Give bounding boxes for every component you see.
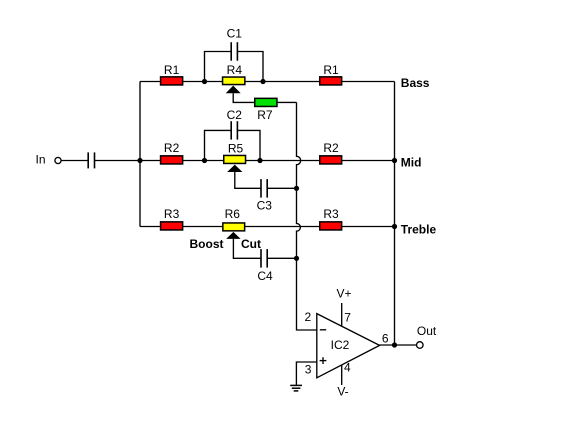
wire C2 right leg: [237, 130, 260, 160]
node C4 wiper bus junction: [294, 256, 299, 261]
resistor R7: [255, 98, 277, 106]
node input bus junction: [137, 158, 142, 163]
wire C2 left leg: [205, 130, 232, 160]
op-amp IC2: [317, 314, 380, 378]
resistor R2 left: [161, 156, 183, 164]
svg-text:R2: R2: [323, 141, 339, 155]
label Cut: [241, 237, 261, 251]
label Out: [417, 324, 437, 338]
label Treble: [401, 222, 437, 236]
node mid right of R5: [257, 158, 262, 163]
resistor R3 right: [320, 222, 342, 230]
wire R7 to wiper bus: [278, 101, 297, 103]
svg-text:Boost: Boost: [190, 237, 224, 251]
label R2 right: [323, 141, 339, 155]
svg-text:C2: C2: [227, 108, 243, 122]
svg-text:Bass: Bass: [401, 76, 430, 90]
label pin 6: [382, 332, 389, 346]
svg-text:Out: Out: [417, 324, 437, 338]
label R7: [257, 108, 273, 122]
label Bass: [401, 76, 430, 90]
svg-text:Mid: Mid: [401, 156, 422, 170]
label R4: [227, 63, 243, 77]
wire In terminal to input capacitor: [61, 160, 88, 162]
ground: [290, 385, 302, 391]
wire C4 to wiper bus: [267, 257, 296, 259]
label R5: [228, 141, 244, 155]
label pin 4: [344, 361, 351, 375]
svg-text:R1: R1: [323, 63, 339, 77]
svg-text:V-: V-: [337, 384, 348, 398]
svg-text:4: 4: [344, 361, 351, 375]
label R3 right: [323, 207, 339, 221]
op-amp plus input symbol: [320, 357, 327, 364]
label V+: [336, 287, 351, 301]
node mid left of R5: [202, 158, 207, 163]
wire wiper bus with crossover hops: [297, 102, 317, 330]
svg-text:Cut: Cut: [241, 237, 261, 251]
wire op-amp output: [380, 344, 417, 346]
wire pin 3 to ground: [296, 362, 316, 385]
label pin 2: [305, 310, 312, 324]
potentiometer R6: [223, 223, 245, 239]
svg-text:C4: C4: [257, 269, 273, 283]
svg-text:C3: C3: [257, 199, 273, 213]
node Out terminal: [417, 342, 424, 349]
wire R5 wiper to C3: [235, 172, 261, 188]
svg-text:7: 7: [344, 311, 351, 325]
node bass right of R4: [260, 79, 265, 84]
potentiometer R5: [224, 155, 246, 172]
svg-text:R2: R2: [164, 141, 180, 155]
svg-text:3: 3: [305, 363, 312, 377]
wire R4 wiper to R7: [233, 93, 254, 102]
svg-text:IC2: IC2: [331, 338, 350, 352]
label C2: [227, 108, 243, 122]
svg-text:Treble: Treble: [401, 222, 437, 236]
label Boost: [190, 237, 224, 251]
label C1: [227, 27, 243, 41]
svg-text:In: In: [35, 153, 45, 167]
node bass left of R4: [202, 79, 207, 84]
label pin 3: [305, 363, 312, 377]
capacitor C1: [231, 42, 237, 61]
label V-: [337, 384, 348, 398]
wire C1 right leg: [237, 52, 263, 82]
node output feedback junction: [392, 342, 397, 347]
node right bus mid junction: [392, 158, 397, 163]
svg-text:R3: R3: [164, 207, 180, 221]
resistor R1 left: [161, 77, 183, 85]
label R6: [225, 207, 241, 221]
wire bass row: [140, 81, 395, 83]
wire pin 4 V-: [341, 365, 343, 385]
resistor R1 right: [320, 77, 342, 85]
label pin 7: [344, 311, 351, 325]
label C4: [257, 269, 273, 283]
wire right bus vertical: [394, 82, 396, 346]
label R3 left: [164, 207, 180, 221]
label R1 right: [323, 63, 339, 77]
wire R6 wiper to C4: [233, 239, 261, 258]
svg-text:R6: R6: [225, 207, 241, 221]
label R2 left: [164, 141, 180, 155]
label In: [35, 153, 45, 167]
node In terminal: [55, 157, 61, 163]
svg-text:C1: C1: [227, 27, 243, 41]
capacitor input coupling: [88, 152, 94, 168]
wire input capacitor to input bus: [95, 160, 141, 162]
node C3 wiper bus junction: [294, 186, 299, 191]
op-amp minus input symbol: [320, 329, 326, 331]
potentiometer R4: [223, 77, 245, 93]
wire mid row: [140, 160, 395, 162]
capacitor C4: [261, 249, 267, 268]
capacitor C3: [261, 179, 267, 198]
capacitor C2: [231, 121, 237, 139]
wire C3 to wiper bus: [267, 187, 296, 189]
label R1 left: [164, 63, 180, 77]
svg-text:2: 2: [305, 310, 312, 324]
node right bus treble junction: [392, 224, 397, 229]
label C3: [257, 199, 273, 213]
svg-text:R7: R7: [257, 108, 273, 122]
svg-text:R1: R1: [164, 63, 180, 77]
wire treble row: [140, 226, 395, 228]
resistor R3 left: [161, 222, 183, 230]
wire pin 7 V+: [341, 303, 343, 326]
resistor R2 right: [320, 156, 342, 164]
wire C1 left leg: [205, 52, 232, 82]
svg-text:R5: R5: [228, 141, 244, 155]
svg-text:R4: R4: [227, 63, 243, 77]
wire input bus vertical: [139, 82, 141, 227]
svg-text:6: 6: [382, 332, 389, 346]
label IC2: [331, 338, 350, 352]
svg-text:V+: V+: [336, 287, 351, 301]
svg-text:R3: R3: [323, 207, 339, 221]
label Mid: [401, 156, 422, 170]
